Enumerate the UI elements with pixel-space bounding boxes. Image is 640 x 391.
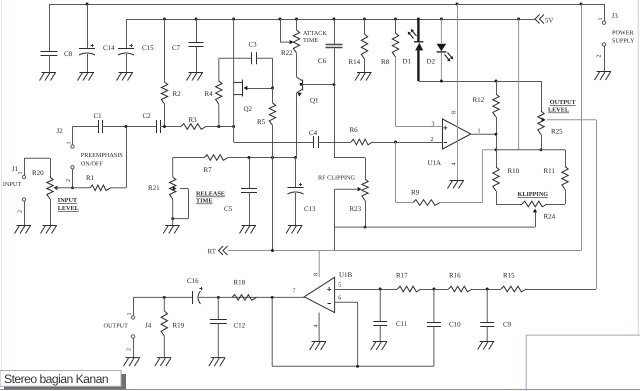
op-amp U1A <box>443 119 471 149</box>
label POWER <box>612 30 635 37</box>
label 2 of J2 <box>66 179 72 182</box>
transistor Q1 <box>297 54 335 158</box>
capacitor C6 <box>326 19 343 85</box>
label C11 <box>396 320 408 328</box>
svg-text:2: 2 <box>66 179 72 182</box>
node junction second rail <box>440 18 443 21</box>
svg-text:R10: R10 <box>508 167 520 175</box>
node junction pin6 feedback <box>356 365 359 368</box>
label R15 <box>503 272 515 280</box>
label J2 <box>57 127 64 135</box>
svg-text:8: 8 <box>452 111 458 114</box>
ground under C8 <box>40 73 57 81</box>
svg-text:3: 3 <box>432 122 435 128</box>
potentiometer R24 klipping <box>522 201 547 207</box>
label 5V <box>545 17 554 25</box>
frame bottom gray line <box>0 389 640 391</box>
svg-text:1: 1 <box>127 313 133 316</box>
node junction U1B fb <box>271 296 274 299</box>
svg-text:Q2: Q2 <box>244 105 253 113</box>
svg-text:J1: J1 <box>12 165 19 173</box>
svg-text:C8: C8 <box>64 50 73 58</box>
node junction output node <box>495 133 498 136</box>
ground under J4 <box>124 358 141 367</box>
resistor R15 <box>501 286 526 292</box>
label 2 of J4 <box>127 348 133 351</box>
svg-text:ATTACK: ATTACK <box>303 30 327 37</box>
label R24 <box>544 213 556 221</box>
wire R9 vertical from pin2 <box>395 142 397 203</box>
svg-text:5V: 5V <box>545 17 554 25</box>
resistor R4 <box>216 58 222 126</box>
capacitor C11 <box>373 289 387 342</box>
svg-text:C11: C11 <box>396 320 408 328</box>
svg-text:C4: C4 <box>309 129 318 137</box>
svg-text:C12: C12 <box>234 322 246 330</box>
frame left edge line <box>1 0 3 370</box>
label 5 <box>338 283 341 289</box>
label ON/OFF <box>81 161 104 168</box>
node junction feedback node <box>495 148 498 151</box>
label R10 <box>508 167 520 175</box>
frame right edge line <box>637 0 639 335</box>
capacitor C7 <box>189 19 204 72</box>
capacitor C9 <box>480 289 494 341</box>
wire C4 to R6 <box>318 142 351 144</box>
pin 5V chevrons <box>535 15 544 24</box>
label 7 <box>293 289 296 295</box>
wire control line y=227 <box>335 226 536 228</box>
svg-text:1: 1 <box>67 142 73 145</box>
diode D1 LED <box>408 19 424 81</box>
label R22 <box>281 49 293 57</box>
label R11 <box>544 167 556 175</box>
label RF CLIPPING <box>318 175 355 182</box>
wire RT line y=250.5 <box>228 250 582 252</box>
label OUTPUT of J4 <box>104 323 129 330</box>
pin RT chevrons <box>219 246 228 255</box>
wire C2 to R3 <box>160 126 181 128</box>
label R17 <box>396 272 408 280</box>
wire to J4 <box>133 297 135 315</box>
node junction R4 bottom <box>217 125 220 128</box>
capacitor C12 <box>210 297 227 357</box>
resistor R14 <box>361 19 367 72</box>
resistor R7 <box>204 155 228 161</box>
wire U1B feedback bottom <box>272 297 434 366</box>
ground under R14 <box>355 73 372 81</box>
label 6 <box>338 296 341 302</box>
label 2 <box>431 137 434 143</box>
svg-text:R18: R18 <box>234 279 246 287</box>
label 4 rotated U1B <box>314 325 320 328</box>
svg-text:C15: C15 <box>142 44 154 52</box>
transistor Q2 <box>234 19 273 127</box>
node junction top rail right vertical <box>580 3 583 6</box>
label LEVEL <box>548 107 569 114</box>
label C13 <box>304 205 316 213</box>
svg-text:C9: C9 <box>503 321 512 329</box>
wire R20 wiper line <box>56 187 91 189</box>
svg-text:OUTPUT: OUTPUT <box>550 99 577 106</box>
node junction R12 top <box>495 80 498 83</box>
svg-text:R21: R21 <box>148 184 160 192</box>
label C6 <box>318 57 327 65</box>
svg-text:RELEASE: RELEASE <box>196 191 225 198</box>
node junction D2 bottom <box>440 80 443 83</box>
wire R24 right lead <box>547 204 565 206</box>
svg-text:POWER: POWER <box>612 30 635 37</box>
resistor R19 <box>161 297 167 357</box>
svg-text:C5: C5 <box>224 205 233 213</box>
label R23 <box>350 205 362 213</box>
node junction second rail <box>333 18 336 21</box>
label R16 <box>449 272 461 280</box>
potentiometer R22 <box>290 30 300 53</box>
wire R3 to Q2 node <box>206 126 234 128</box>
node junction pin2 R9 <box>394 141 397 144</box>
label Q1 <box>310 97 319 105</box>
svg-text:1: 1 <box>478 129 481 135</box>
wire U1B pin8 branch <box>318 251 320 278</box>
svg-text:C13: C13 <box>304 205 316 213</box>
label TIME attack <box>303 37 318 44</box>
wire R9 right loop <box>440 150 496 203</box>
ground under J3 <box>595 72 612 81</box>
wire C1 to C2 <box>102 126 156 128</box>
label J1 <box>12 165 19 173</box>
ground under C15 <box>117 73 134 81</box>
resistor R18 <box>232 295 257 301</box>
wire feedback row y=150 <box>496 149 565 151</box>
svg-text:2: 2 <box>431 137 434 143</box>
resistor R12 <box>493 81 499 134</box>
wire R7 left corner <box>173 158 205 178</box>
connector J2 pin 1 <box>67 142 75 149</box>
resistor R5 <box>269 88 275 158</box>
wire R25 bottom <box>541 135 543 150</box>
connector J1 pin 1 <box>18 158 26 178</box>
label box Stereo bagian Kanan <box>0 371 121 387</box>
svg-text:R7: R7 <box>204 166 213 174</box>
wire D1 D2 bottom to R12 <box>418 81 541 83</box>
ground under C7 <box>187 73 204 81</box>
node junction Q2 gate R5 <box>271 87 274 90</box>
label C10 <box>449 321 461 329</box>
resistor R9 <box>413 200 440 206</box>
node junction C13 top <box>294 156 297 159</box>
svg-text:OUTPUT: OUTPUT <box>104 323 129 330</box>
label R8 <box>381 58 390 66</box>
ground under U1B <box>310 342 327 351</box>
svg-text:6: 6 <box>338 296 341 302</box>
wire rail right vertical x581 <box>581 4 583 251</box>
node junction second rail <box>232 18 235 21</box>
label Q2 <box>244 105 253 113</box>
resistor R8 <box>392 19 398 127</box>
svg-text:LEVEL: LEVEL <box>548 107 569 114</box>
node junction R19 top <box>163 296 166 299</box>
diode D2 LED <box>437 19 454 81</box>
svg-text:C2: C2 <box>143 112 152 120</box>
svg-text:ON/OFF: ON/OFF <box>81 161 104 168</box>
label 8 rotated <box>452 111 458 114</box>
node junction second rail <box>295 18 298 21</box>
label C15 <box>142 44 154 52</box>
capacitor C13 <box>288 158 304 226</box>
svg-text:J4: J4 <box>145 322 152 330</box>
wire U1A output <box>471 133 496 135</box>
svg-text:C7: C7 <box>172 44 181 52</box>
capacitor C14 <box>79 4 95 72</box>
node junction on top rail at C14 <box>86 3 89 6</box>
wire R20 bottom <box>50 199 52 225</box>
ground under U1A <box>448 181 465 189</box>
svg-text:1: 1 <box>18 172 24 175</box>
connector J4 pin 1 <box>127 313 135 320</box>
label C12 <box>234 322 246 330</box>
capacitor C10 <box>427 289 441 366</box>
label R2 <box>173 90 182 98</box>
ground under C11 <box>371 342 388 351</box>
svg-text:TIME: TIME <box>196 198 213 205</box>
label C7 <box>172 44 181 52</box>
label R9 <box>411 189 420 197</box>
label 1 output <box>478 129 481 135</box>
svg-text:4: 4 <box>314 325 320 328</box>
node junction C1-C2 stub <box>125 125 128 128</box>
label C2 <box>143 112 152 120</box>
wire R24 wiper vertical <box>533 209 537 228</box>
label R7 <box>204 166 213 174</box>
wire R22 wiper tie <box>280 19 290 42</box>
label J4 <box>145 322 152 330</box>
wire R16 to R15 <box>472 289 501 291</box>
capacitor C1 <box>99 120 103 133</box>
wire R22 top <box>296 19 298 30</box>
wire U1B pin5 <box>335 289 398 291</box>
svg-text:R2: R2 <box>173 90 182 98</box>
svg-text:Stereo bagian Kanan: Stereo bagian Kanan <box>4 372 108 386</box>
svg-text:C1: C1 <box>94 112 103 120</box>
wire R12-R10 link <box>496 134 498 167</box>
wire R17 to C10 <box>421 289 449 291</box>
wire R15 to right vertical <box>526 289 596 291</box>
capacitor C8 <box>41 4 58 72</box>
node junction second rail <box>394 18 397 21</box>
ground under J1 <box>15 226 32 234</box>
label U1A <box>428 159 442 167</box>
potentiometer R23 <box>358 179 369 201</box>
wire U1B pin4 <box>318 313 320 342</box>
wire C4 line <box>234 142 314 144</box>
svg-text:D1: D1 <box>403 58 412 66</box>
label R12 <box>473 96 485 104</box>
svg-text:J3: J3 <box>612 12 619 20</box>
label R20 <box>32 169 44 177</box>
label box shadow <box>4 374 126 390</box>
resistor R6 <box>351 139 373 145</box>
label R5 <box>257 118 266 126</box>
label 3 <box>432 122 435 128</box>
node junction second rail <box>517 18 520 21</box>
svg-text:R6: R6 <box>350 126 359 134</box>
op-amp U1B <box>304 277 334 312</box>
svg-text:R9: R9 <box>411 189 420 197</box>
ground under R19 <box>155 358 172 367</box>
svg-text:R4: R4 <box>205 90 214 98</box>
wire C3 left line <box>219 57 252 59</box>
label R3 <box>189 116 198 124</box>
label R1 <box>86 174 95 182</box>
node junction C9 top <box>486 288 489 291</box>
svg-text:C3: C3 <box>249 41 258 49</box>
label C16 <box>187 277 199 285</box>
svg-text:D2: D2 <box>427 58 436 66</box>
label RT <box>208 248 217 256</box>
potentiometer R20 <box>47 177 58 199</box>
label 4 rotated <box>452 163 458 166</box>
svg-text:R12: R12 <box>473 96 485 104</box>
svg-text:C16: C16 <box>187 277 199 285</box>
resistor R3 <box>181 124 206 130</box>
svg-text:2: 2 <box>597 55 603 58</box>
label OUTPUT <box>550 99 577 106</box>
wire output line y=297.4 <box>133 296 304 298</box>
wire 5V branch x=519 <box>518 19 520 150</box>
label C14 <box>103 44 115 52</box>
capacitor C2 <box>157 120 161 133</box>
svg-text:INPUT: INPUT <box>58 197 78 204</box>
wire U1B pin6 <box>335 302 358 366</box>
connector J4 pin 2 <box>131 335 134 358</box>
ground under C13 <box>286 226 303 234</box>
wire rail to J3 <box>604 4 606 21</box>
wire R7 to C13 node <box>228 157 296 159</box>
resistor R17 <box>397 286 421 292</box>
label INPUT LEVEL line2 <box>58 205 79 212</box>
label R19 <box>173 322 185 330</box>
node junction C12 top <box>217 296 220 299</box>
svg-text:U1A: U1A <box>428 159 442 167</box>
wire R5 down to RT line <box>272 158 274 251</box>
svg-text:R25: R25 <box>551 128 563 136</box>
svg-text:C10: C10 <box>449 321 461 329</box>
label R4 <box>205 90 214 98</box>
ground under R21 <box>163 226 180 234</box>
node junction RT R5 <box>271 249 274 252</box>
resistor R1 <box>90 185 111 191</box>
label INPUT LEVEL line1 <box>58 197 78 204</box>
svg-text:5: 5 <box>338 283 341 289</box>
resistor R11 <box>562 167 568 205</box>
label C1 <box>94 112 103 120</box>
node junction second rail <box>195 18 198 21</box>
svg-text:R8: R8 <box>381 58 390 66</box>
node junction second rail <box>363 18 366 21</box>
node junction second rail <box>279 18 282 21</box>
svg-text:R15: R15 <box>503 272 515 280</box>
wire Q2 node down to C4 line <box>233 127 235 143</box>
label 2 of J3 <box>597 55 603 58</box>
wire R23 bottom <box>365 201 367 228</box>
wire R1 to C1C2 node <box>111 127 127 188</box>
wire R23 wiper tie <box>335 189 359 250</box>
svg-text:2: 2 <box>127 348 133 351</box>
svg-text:R23: R23 <box>350 205 362 213</box>
node junction Q2 source node <box>232 125 235 128</box>
label INPUT of J1 <box>3 181 21 188</box>
label U1B <box>339 271 353 279</box>
label J3 <box>612 12 619 20</box>
node junction J2 on wiper line <box>71 186 74 189</box>
svg-text:R14: R14 <box>349 58 361 66</box>
svg-text:R1: R1 <box>86 174 95 182</box>
label D1 <box>403 58 412 66</box>
node junction C11 top <box>379 288 382 291</box>
capacitor C3 <box>252 52 257 64</box>
ground under C9 <box>478 342 495 350</box>
svg-text:R5: R5 <box>257 118 266 126</box>
ground under C5 <box>240 226 257 234</box>
label C9 <box>503 321 512 329</box>
wire R21 bottom <box>172 199 174 225</box>
wire U1A pin3 input <box>396 126 443 128</box>
node junction C10 top <box>432 288 435 291</box>
wire R24 left lead <box>496 204 522 206</box>
wire R11 top <box>565 150 567 167</box>
wire R21 wiper tie <box>173 189 189 219</box>
label R18 <box>234 279 246 287</box>
svg-text:R11: R11 <box>544 167 556 175</box>
frame blue box bottom right <box>526 335 640 391</box>
svg-text:R3: R3 <box>189 116 198 124</box>
label R25 <box>551 128 563 136</box>
svg-text:RT: RT <box>208 248 217 256</box>
connector J2 pin 2 <box>71 166 74 188</box>
svg-text:LEVEL: LEVEL <box>58 205 79 212</box>
label RELEASE <box>196 191 225 198</box>
svg-text:7: 7 <box>293 289 296 295</box>
resistor R16 <box>449 286 473 292</box>
node junction R23 bottom <box>364 226 367 229</box>
wire C3 right <box>256 58 273 88</box>
wire J2 to C1 <box>73 127 99 145</box>
capacitor C15 <box>118 19 134 72</box>
node junction C5 top <box>248 156 251 159</box>
svg-text:Q1: Q1 <box>310 97 319 105</box>
svg-text:INPUT: INPUT <box>3 181 21 188</box>
connector J3 pin 1 <box>598 18 606 25</box>
label C5 <box>224 205 233 213</box>
wire J1 to R20 top <box>24 158 51 177</box>
wire C6 node down to R23 jog <box>334 85 366 180</box>
label D2 <box>427 58 436 66</box>
node junction top rail at U1A pin8 line <box>456 3 459 6</box>
node junction R5 bottom on R7 line <box>271 156 274 159</box>
svg-text:1: 1 <box>598 18 604 21</box>
capacitor C4 <box>314 136 319 148</box>
label PREEMPHASIS <box>81 152 124 159</box>
svg-text:J2: J2 <box>57 127 64 135</box>
label 8 rotated U1B <box>314 273 320 276</box>
svg-text:KLIPPING: KLIPPING <box>518 191 549 198</box>
connector J1 pin 2 <box>22 198 25 225</box>
ground under C12 <box>209 358 226 367</box>
connector J3 pin 2 <box>602 43 605 72</box>
label ATTACK <box>303 30 327 37</box>
label C3 <box>249 41 258 49</box>
